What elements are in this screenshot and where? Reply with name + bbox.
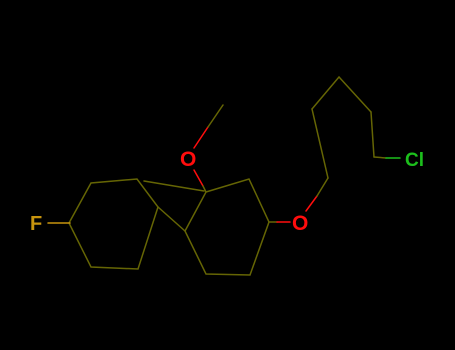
wire: C1-C2 [312, 109, 328, 178]
svg-text:F: F [30, 213, 42, 235]
wire: ring V3 to O2 (red half) [277, 221, 290, 223]
wire: O2 to C1 (carbon half) [317, 178, 328, 196]
wire: C3-C4 [339, 77, 371, 112]
wire: O2 to C1 (red half) [306, 196, 317, 211]
wire: C5 to Cl (carbon half) [374, 157, 386, 158]
wire: Cl bond (green half) [386, 157, 400, 159]
svg-text:O: O [180, 148, 196, 171]
wire: O1 to ring V1 (red half) [194, 170, 203, 186]
left ring (4-fluorophenyl) [69, 179, 158, 269]
wire: F bond [48, 222, 70, 224]
svg-text:Cl: Cl [405, 150, 424, 171]
wire: O1 to ring V1 (carbon half) [203, 186, 206, 192]
wire: C2-C3 [312, 77, 339, 109]
central ring [185, 179, 269, 275]
wire: O1 to methyl (red half) [194, 127, 208, 148]
wire: methyl carbon half [208, 105, 223, 127]
wire: C4-C5 [371, 112, 374, 157]
wire: inter-ring bond [158, 207, 185, 231]
wire: ring V3 to O2 (carbon half) [269, 221, 277, 223]
wire: bridge bond P3 to V1 [144, 181, 204, 191]
svg-text:O: O [292, 212, 308, 235]
